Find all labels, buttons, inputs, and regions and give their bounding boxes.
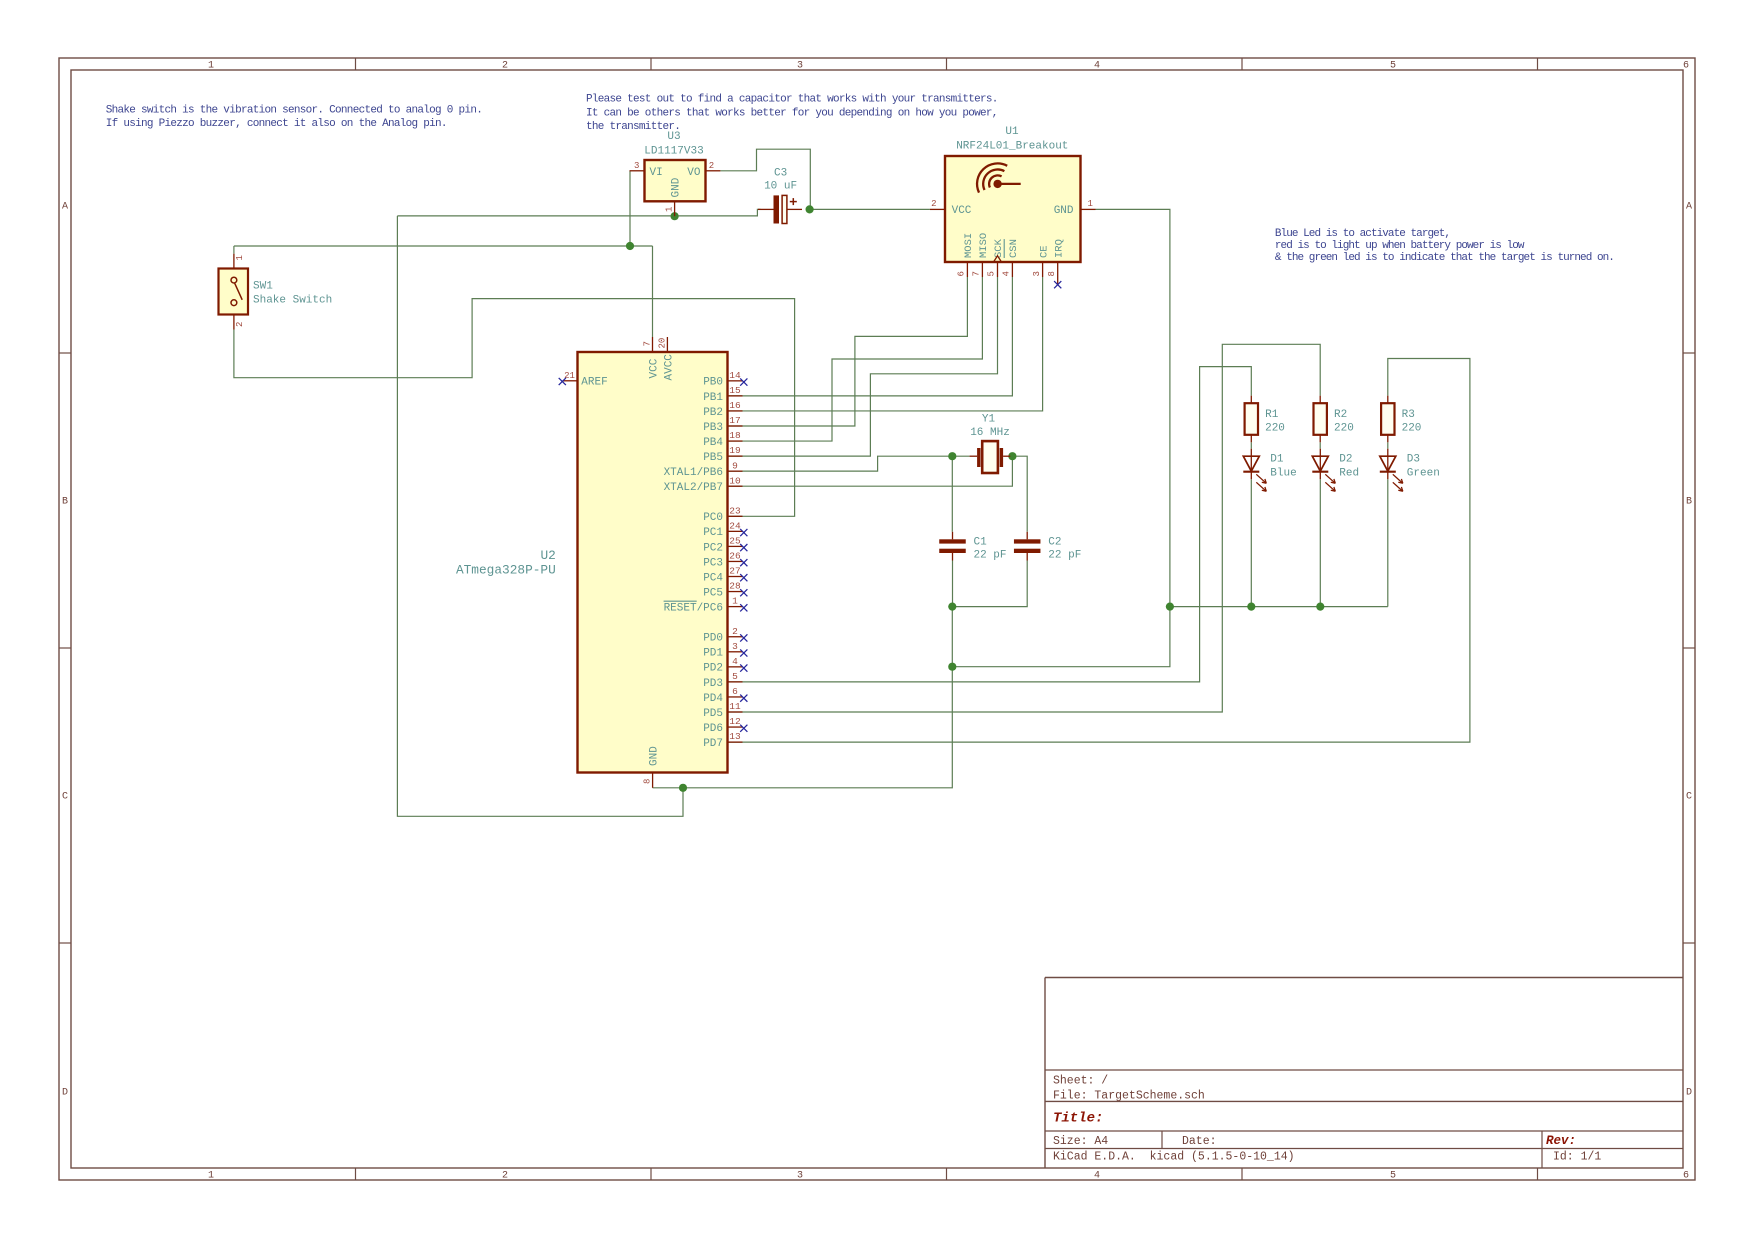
frame column labels bottom [208, 1171, 1689, 1182]
svg-text:Title:: Title: [1053, 1110, 1103, 1126]
svg-text:6: 6 [957, 271, 967, 276]
U3 pin 2 VO [706, 161, 721, 171]
svg-text:GND: GND [670, 177, 682, 197]
svg-text:220: 220 [1334, 422, 1354, 434]
svg-text:4: 4 [732, 656, 738, 667]
U2 pin 6 PD4 [703, 686, 742, 705]
wire SW1 pin2 to U2 PC0 [234, 299, 795, 517]
svg-text:2: 2 [502, 61, 508, 72]
svg-text:& the green led is to indicate: & the green led is to indicate that the … [1275, 252, 1614, 264]
U2 RESET/PC6 no-connect X [740, 604, 747, 611]
svg-text:CSN: CSN [1008, 239, 1020, 258]
svg-text:6: 6 [1683, 1171, 1689, 1182]
wire GND link to right rail [952, 607, 1170, 667]
U2 PD0 no-connect X [740, 634, 747, 641]
svg-text:D1: D1 [1270, 453, 1284, 465]
svg-text:PC4: PC4 [703, 572, 723, 584]
U1 pin 5 SCK [987, 238, 1006, 277]
svg-text:NRF24L01_Breakout: NRF24L01_Breakout [956, 141, 1068, 153]
U1 pin 3 CE [1032, 245, 1051, 277]
svg-text:LD1117V33: LD1117V33 [644, 146, 703, 158]
U2 PD1 no-connect X [740, 649, 747, 656]
U2 pin 18 PB4 [703, 430, 742, 449]
svg-text:PB5: PB5 [703, 452, 723, 464]
junction Y1 left node [948, 452, 956, 460]
svg-text:22 pF: 22 pF [974, 549, 1007, 561]
wire D3 cathode to rail [1387, 479, 1389, 606]
comment note 2 (capacitor advice) [586, 93, 998, 133]
svg-text:Date:: Date: [1182, 1135, 1217, 1148]
wire U2 PB4 to U1 MISO [728, 277, 983, 441]
svg-text:17: 17 [729, 415, 740, 426]
resistor R1 body [1245, 396, 1258, 443]
U3 pin 3 VI [630, 161, 645, 171]
U2 AREF no-connect X [559, 378, 566, 385]
svg-text:1: 1 [732, 596, 738, 607]
U2 pin 27 PC4 [703, 566, 742, 585]
svg-text:10: 10 [729, 475, 741, 486]
svg-text:4: 4 [1094, 1171, 1100, 1182]
U1 antenna symbol [977, 163, 1021, 192]
svg-text:D: D [1686, 1088, 1692, 1099]
U2 pin 28 PC5 [703, 581, 742, 600]
svg-text:PB2: PB2 [703, 407, 723, 419]
wire U3 VO to C3 plus and U1 VCC (net 3V3) [720, 149, 810, 209]
svg-text:red is to light up when batter: red is to light up when battery power is… [1275, 240, 1525, 252]
wire U1 GND down right side [1096, 209, 1170, 606]
svg-text:24: 24 [729, 520, 741, 531]
MCU U2 ATmega328P-PU body [578, 352, 728, 773]
junction C1 bottom GND [948, 603, 956, 611]
svg-text:11: 11 [729, 701, 741, 712]
svg-text:3: 3 [797, 1171, 803, 1182]
svg-text:3: 3 [1032, 271, 1042, 276]
svg-text:It can be others that works be: It can be others that works better for y… [586, 107, 998, 119]
U1 IRQ no-connect X [1054, 281, 1061, 288]
SW1 pin 2 [234, 315, 245, 330]
svg-text:Y1: Y1 [982, 414, 996, 426]
svg-text:1: 1 [1087, 199, 1092, 209]
junction VIN at U3 VI drop [626, 242, 634, 250]
U2 PC4 no-connect X [740, 574, 747, 581]
svg-text:File: TargetScheme.sch: File: TargetScheme.sch [1053, 1090, 1205, 1103]
svg-text:1: 1 [208, 1171, 214, 1182]
svg-text:7: 7 [642, 341, 652, 346]
wire LED ground rail [1170, 606, 1388, 608]
svg-text:6: 6 [732, 686, 738, 697]
svg-text:7: 7 [972, 271, 982, 276]
crystal Y1 body [970, 441, 1011, 473]
U2 PC5 no-connect X [740, 589, 747, 596]
svg-text:3: 3 [797, 61, 803, 72]
LED D1 body [1243, 449, 1266, 492]
svg-text:Id: 1/1: Id: 1/1 [1553, 1151, 1601, 1164]
U2 PB0 no-connect X [740, 378, 747, 385]
U2 PC2 no-connect X [740, 544, 747, 551]
svg-text:PD5: PD5 [703, 708, 723, 720]
regulator U3 LD1117V33 body [645, 160, 706, 201]
svg-text:10 uF: 10 uF [764, 180, 797, 192]
U2 pin 14 PB0 [703, 370, 742, 389]
wire C1-C2 bottom link [952, 561, 1027, 607]
LED D3 body [1380, 449, 1403, 492]
svg-text:D: D [62, 1088, 68, 1099]
U2 pin 3 PD1 [703, 641, 742, 660]
SW1 pin 1 [234, 254, 245, 269]
svg-text:PD6: PD6 [703, 723, 723, 735]
U1 pin 4 CSN [1002, 239, 1021, 277]
comment note 1 (shake switch) [106, 104, 482, 130]
wire U3 VI pin drop to VIN net [629, 171, 631, 246]
svg-text:C1: C1 [974, 536, 988, 548]
svg-text:If using Piezzo buzzer, connec: If using Piezzo buzzer, connect it also … [106, 118, 447, 130]
wire U2 PB1 to U1 CSN [728, 277, 1013, 396]
svg-text:CE: CE [1038, 245, 1050, 258]
frame column labels top [208, 61, 1689, 72]
U2 pin 20 AVCC [657, 337, 667, 352]
svg-text:PB1: PB1 [703, 392, 723, 404]
svg-text:2: 2 [502, 1171, 508, 1182]
svg-text:PB4: PB4 [703, 437, 723, 449]
U1 pin 7 MISO [972, 233, 991, 277]
svg-text:Please test out to find a capa: Please test out to find a capacitor that… [586, 93, 998, 105]
svg-text:VCC: VCC [952, 205, 972, 217]
frame row labels left [62, 202, 68, 1099]
U2 pin 24 PC1 [703, 520, 742, 539]
svg-text:Size: A4: Size: A4 [1053, 1135, 1108, 1148]
svg-text:8: 8 [1047, 271, 1057, 276]
U2 pin 5 PD3 [703, 671, 742, 690]
U1 pin 8 IRQ [1047, 239, 1066, 284]
wire SW1 pin1 vertical [233, 246, 235, 254]
wire D1 cathode to rail [1250, 479, 1252, 606]
svg-text:U3: U3 [667, 131, 680, 143]
frame row labels right [1686, 202, 1692, 1099]
svg-text:19: 19 [729, 445, 741, 456]
U2 pin 11 PD5 [703, 701, 742, 720]
U2 pin 26 PC3 [703, 551, 742, 570]
svg-text:C: C [1686, 792, 1692, 803]
svg-text:3: 3 [732, 641, 738, 652]
U2 pin 7 VCC [642, 337, 652, 352]
U2 pin 10 XTAL2/PB7 [664, 475, 743, 494]
svg-text:13: 13 [729, 731, 741, 742]
svg-text:22 pF: 22 pF [1048, 549, 1081, 561]
wire U2 XTAL2/PB7 to Y1 right [728, 456, 1013, 486]
svg-text:D3: D3 [1407, 453, 1420, 465]
U2 pin 9 XTAL1/PB6 [664, 460, 743, 479]
svg-text:1: 1 [235, 255, 245, 260]
U2 pin 1 RESET/PC6 [664, 596, 743, 615]
wire GND junction to C1 column [683, 667, 952, 788]
U2 pin 13 PD7 [703, 731, 742, 750]
svg-text:AVCC: AVCC [663, 354, 675, 381]
svg-text:PD0: PD0 [703, 633, 723, 645]
svg-text:8: 8 [642, 779, 652, 784]
capacitor C3 polarized [758, 195, 802, 223]
U2 pin 21 AREF [563, 371, 578, 381]
svg-text:PB0: PB0 [703, 377, 723, 389]
resistor R3 body [1381, 396, 1394, 443]
svg-text:15: 15 [729, 385, 741, 396]
U2 PC1 no-connect X [740, 529, 747, 536]
wire U2 GND pin8 to junction [653, 787, 683, 789]
svg-text:PC0: PC0 [703, 512, 723, 524]
svg-text:MOSI: MOSI [963, 233, 975, 258]
wire SW1 pin1 to U3 VI and U2 VCC (net VIN) [234, 245, 653, 247]
svg-text:PC3: PC3 [703, 557, 723, 569]
svg-text:MISO: MISO [978, 233, 990, 258]
svg-text:R2: R2 [1334, 409, 1347, 421]
svg-text:A: A [62, 202, 68, 213]
U2 pin 8 GND [642, 773, 652, 788]
svg-text:25: 25 [729, 536, 741, 547]
svg-text:AREF: AREF [581, 377, 607, 389]
svg-text:Green: Green [1407, 467, 1440, 479]
svg-text:SW1: SW1 [253, 281, 273, 293]
capacitor C1 [939, 532, 966, 561]
RF module U1 NRF24L01_Breakout body [945, 156, 1081, 262]
U1 pin 6 MOSI [957, 233, 976, 277]
svg-text:2: 2 [235, 322, 245, 327]
U2 PD6 no-connect X [740, 725, 747, 732]
svg-text:PC1: PC1 [703, 527, 723, 539]
svg-text:GND: GND [1054, 205, 1074, 217]
U2 pin 4 PD2 [703, 656, 742, 675]
junction 3V3 at C3 plus [806, 205, 814, 213]
svg-text:ATmega328P-PU: ATmega328P-PU [456, 562, 556, 577]
svg-text:PD7: PD7 [703, 738, 723, 750]
svg-text:5: 5 [1390, 1171, 1396, 1182]
svg-text:9: 9 [732, 460, 738, 471]
svg-text:5: 5 [732, 671, 738, 682]
svg-text:GND: GND [648, 746, 660, 766]
svg-text:VO: VO [687, 167, 701, 179]
wire R3 to D3 [1387, 442, 1389, 448]
wire R2 to D2 [1319, 442, 1321, 448]
junction GND LED rail [1166, 603, 1174, 611]
svg-text:C: C [62, 792, 68, 803]
wire R1 to D1 [1250, 442, 1252, 448]
wire C3 plus to U1 VCC [810, 208, 930, 210]
svg-text:XTAL1/PB6: XTAL1/PB6 [664, 467, 723, 479]
svg-text:Rev:: Rev: [1546, 1134, 1576, 1148]
svg-text:26: 26 [729, 551, 741, 562]
wire U2 PD5 to R2 [728, 344, 1321, 712]
U2 pin 2 PD0 [703, 626, 742, 645]
wire VIN drop to U2 VCC pin 7 [652, 246, 654, 337]
svg-text:XTAL2/PB7: XTAL2/PB7 [664, 482, 723, 494]
svg-text:14: 14 [729, 370, 741, 381]
svg-text:Blue Led is to activate target: Blue Led is to activate target, [1275, 228, 1450, 240]
svg-text:28: 28 [729, 581, 741, 592]
svg-text:VI: VI [650, 167, 663, 179]
svg-text:Red: Red [1339, 467, 1359, 479]
svg-text:1: 1 [664, 207, 674, 212]
svg-text:Blue: Blue [1270, 467, 1296, 479]
svg-text:C3: C3 [774, 167, 787, 179]
svg-text:B: B [62, 497, 68, 508]
svg-text:16 MHz: 16 MHz [970, 427, 1010, 439]
svg-text:5: 5 [1390, 61, 1396, 72]
svg-text:4: 4 [1094, 61, 1100, 72]
junction D2 cathode rail [1316, 603, 1324, 611]
svg-text:3: 3 [634, 161, 639, 171]
U3 pin 1 GND [664, 201, 674, 216]
svg-text:R3: R3 [1402, 409, 1415, 421]
junction GND at U3 pin1 [671, 212, 679, 220]
svg-text:RESET/PC6: RESET/PC6 [664, 602, 723, 614]
svg-text:IRQ: IRQ [1053, 239, 1065, 258]
wire C1 bottom [952, 561, 954, 607]
svg-text:D2: D2 [1339, 453, 1352, 465]
svg-text:21: 21 [564, 371, 575, 381]
svg-text:5: 5 [987, 271, 997, 276]
U2 pin 15 PB1 [703, 385, 742, 404]
wire D2 cathode to rail [1319, 479, 1321, 606]
capacitor C2 [1014, 532, 1040, 561]
svg-text:C2: C2 [1048, 536, 1061, 548]
svg-text:2: 2 [931, 199, 936, 209]
U2 pin 16 PB2 [703, 400, 742, 419]
svg-text:1: 1 [208, 61, 214, 72]
U2 pin 19 PB5 [703, 445, 742, 464]
svg-text:2: 2 [709, 161, 714, 171]
svg-text:Shake switch is the vibration: Shake switch is the vibration sensor. Co… [106, 104, 482, 116]
svg-text:U2: U2 [540, 548, 555, 563]
wire U2 PD7 to R3 [728, 359, 1470, 743]
svg-text:4: 4 [1002, 271, 1012, 276]
wire GND left loop down [397, 216, 683, 816]
svg-text:PD4: PD4 [703, 693, 723, 705]
svg-text:KiCad E.D.A. kicad (5.1.5-0-1: KiCad E.D.A. kicad (5.1.5-0-10_14) [1053, 1151, 1295, 1164]
svg-text:23: 23 [729, 505, 741, 516]
svg-text:PD1: PD1 [703, 648, 723, 660]
comment note 3 (LED colors) [1275, 228, 1614, 264]
wire Y1 right node to C2 top [1010, 456, 1027, 532]
svg-text:20: 20 [657, 338, 667, 349]
title block [1045, 978, 1683, 1169]
U2 PC3 no-connect X [740, 559, 747, 566]
U2 PD2 no-connect X [740, 664, 747, 671]
svg-text:6: 6 [1683, 61, 1689, 72]
U1 pin 2 VCC [930, 199, 945, 209]
svg-text:220: 220 [1402, 422, 1422, 434]
svg-text:U1: U1 [1005, 126, 1019, 138]
switch SW1 body [219, 269, 249, 315]
U2 PD4 no-connect X [740, 695, 747, 702]
resistor R2 body [1314, 396, 1327, 443]
wire U2 XTAL1/PB6 to Y1 left [728, 456, 970, 471]
svg-text:B: B [1686, 497, 1692, 508]
svg-text:2: 2 [732, 626, 738, 637]
U1 pin 1 GND [1081, 199, 1096, 209]
svg-text:VCC: VCC [648, 358, 660, 378]
U2 pin 25 PC2 [703, 536, 742, 555]
wire C1 column between GND nodes [951, 607, 953, 667]
wire Y1 left node to C1 top [951, 456, 953, 532]
svg-text:PD3: PD3 [703, 678, 723, 690]
svg-text:16: 16 [729, 400, 741, 411]
wire GND U3 pin1 rail [397, 209, 760, 216]
svg-text:the transmitter.: the transmitter. [586, 121, 680, 133]
U2 pin 17 PB3 [703, 415, 742, 434]
junction GND mid link [948, 663, 956, 671]
svg-text:18: 18 [729, 430, 741, 441]
svg-text:A: A [1686, 202, 1692, 213]
junction U2 GND pin8 [679, 784, 687, 792]
svg-text:Shake Switch: Shake Switch [253, 294, 332, 306]
svg-text:PD2: PD2 [703, 663, 723, 675]
svg-text:SCK: SCK [993, 238, 1005, 258]
svg-text:Sheet: /: Sheet: / [1053, 1075, 1108, 1088]
junction D1 cathode rail [1247, 603, 1255, 611]
wire U2 PB2 to U1 CE [728, 277, 1043, 411]
svg-text:PB3: PB3 [703, 422, 723, 434]
wire U2 PD3 to R1 [728, 367, 1252, 682]
U2 pin 12 PD6 [703, 716, 742, 735]
svg-text:PC2: PC2 [703, 542, 723, 554]
svg-text:12: 12 [729, 716, 741, 727]
svg-text:220: 220 [1265, 422, 1285, 434]
wire U2 PB5 to U1 SCK [728, 277, 998, 456]
svg-text:PC5: PC5 [703, 587, 723, 599]
svg-text:27: 27 [729, 566, 740, 577]
LED D2 body [1312, 449, 1335, 492]
U2 pin 23 PC0 [703, 505, 742, 524]
junction Y1 right node [1008, 452, 1016, 460]
wire U2 PB3 to U1 MOSI [728, 277, 968, 426]
svg-text:R1: R1 [1265, 409, 1279, 421]
